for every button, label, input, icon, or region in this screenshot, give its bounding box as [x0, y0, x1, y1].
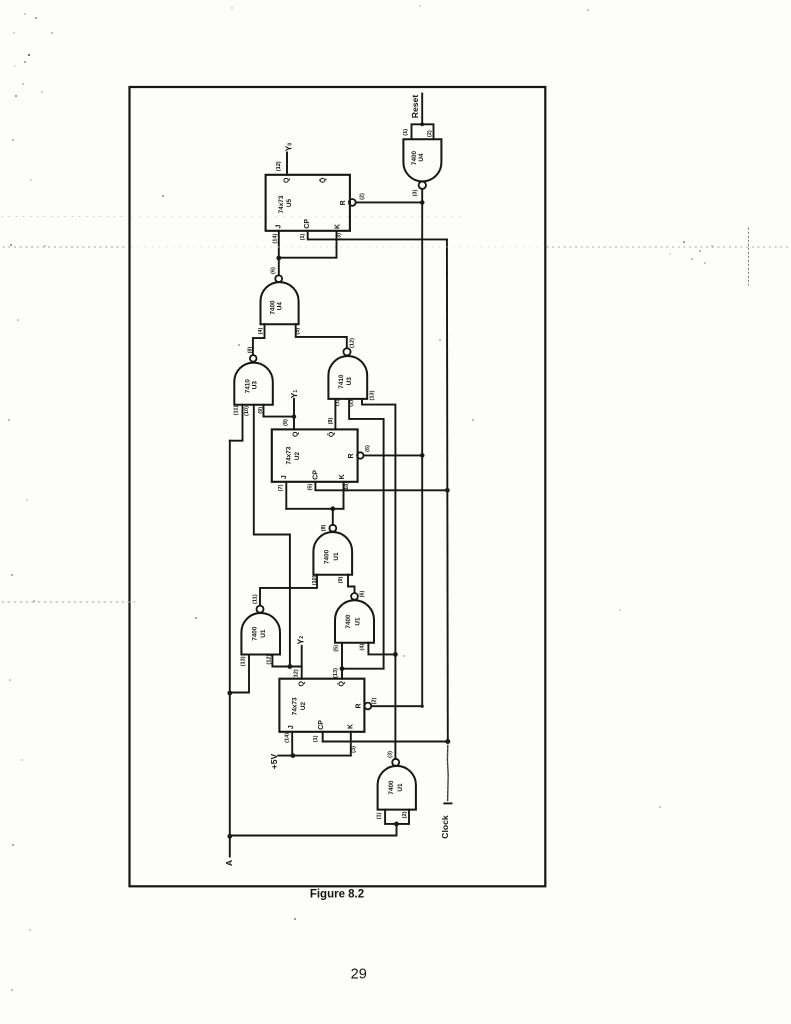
junction Y2 node / U3L input 10 rail — [288, 664, 293, 669]
svg-text:(8): (8) — [328, 417, 334, 424]
wire U2 CP to clock rail — [315, 482, 447, 491]
junction +5V / U2b J — [291, 753, 296, 758]
svg-text:U1: U1 — [397, 783, 404, 792]
svg-text:Q̄: Q̄ — [337, 681, 346, 687]
svg-text:(4): (4) — [258, 327, 264, 334]
svg-text:(6): (6) — [365, 445, 371, 452]
wire U1b input 10 from U1d output — [260, 575, 317, 606]
wire U1a inputs tie bracket — [385, 810, 409, 824]
svg-text:K: K — [339, 474, 346, 479]
flip-flop U2 (74x73) — [272, 429, 364, 481]
wire Y2 vertical / FF3 Q — [301, 646, 303, 679]
nand gate U3L (7410 U3, points up) — [234, 355, 272, 405]
svg-text:Figure 8.2: Figure 8.2 — [310, 889, 364, 901]
junction Reset rail / U5 R — [420, 200, 425, 205]
wire U5 K tie — [279, 231, 337, 258]
wire U3L input 9 to Y1 node — [264, 405, 295, 417]
svg-text:74x73: 74x73 — [286, 446, 293, 464]
svg-text:CP: CP — [304, 219, 311, 229]
junction Reset rail / U2 R — [420, 453, 425, 458]
junction clock rail / U2 CP — [445, 488, 450, 493]
svg-text:K: K — [334, 224, 341, 229]
svg-text:Q: Q — [299, 681, 306, 687]
svg-text:(7): (7) — [278, 484, 284, 491]
wire U1c input 5 / FF3 Qbar — [341, 643, 343, 679]
svg-text:(8): (8) — [247, 346, 253, 353]
junction A rail / U1d input 13 — [227, 691, 232, 696]
svg-text:(12): (12) — [294, 669, 300, 679]
svg-text:(5): (5) — [334, 645, 340, 652]
wire U2 J tie — [285, 482, 287, 509]
svg-text:(5): (5) — [308, 484, 314, 491]
flip-flop U2b (74x73, bottom section) — [279, 679, 371, 732]
svg-text:(13): (13) — [369, 390, 375, 400]
junction clock rail / clock horizontal — [445, 739, 450, 744]
nand gate U1c (7400 U1, points up) — [335, 593, 374, 643]
svg-text:(2): (2) — [372, 697, 378, 704]
svg-text:(11): (11) — [253, 594, 259, 604]
wire Reset lead — [421, 94, 423, 125]
wire U3R input 2 rail — [349, 399, 384, 669]
svg-text:U2: U2 — [300, 701, 307, 710]
svg-text:(1): (1) — [313, 735, 319, 742]
svg-text:J: J — [281, 475, 288, 479]
svg-text:(2): (2) — [427, 130, 433, 137]
svg-text:74x73: 74x73 — [292, 697, 299, 715]
junction U2 J/K tie / U1b output — [330, 506, 335, 511]
svg-text:7400: 7400 — [411, 150, 418, 165]
junction FF3 Qbar node — [340, 666, 345, 671]
page frame — [130, 87, 546, 886]
svg-text:J: J — [288, 725, 295, 729]
nand gate U1b (7400 U1, points up) — [313, 525, 352, 575]
svg-text:CP: CP — [312, 470, 319, 480]
junction Y1 node — [292, 414, 296, 418]
wire U1d input 13 to A rail — [230, 655, 249, 693]
svg-text:(14): (14) — [284, 733, 290, 743]
wire clock rail — [446, 239, 449, 741]
svg-text:U4: U4 — [418, 153, 425, 162]
svg-text:29: 29 — [351, 967, 367, 983]
wire U2 R to Reset rail — [364, 454, 423, 456]
svg-text:7400: 7400 — [252, 626, 259, 641]
junction A rail / A feed — [227, 834, 232, 839]
svg-text:(2): (2) — [360, 193, 366, 200]
wire U2 J/K tie bar — [286, 508, 343, 510]
svg-text:7410: 7410 — [245, 379, 252, 394]
wire U3R input 13 / U1a output rail — [362, 399, 395, 759]
svg-text:U2: U2 — [294, 451, 301, 460]
junction U1a inputs / A feed — [394, 822, 399, 827]
svg-text:(1): (1) — [300, 233, 306, 240]
svg-text:(13): (13) — [333, 668, 339, 678]
wire U3L input 10 to Y2 node — [254, 405, 290, 667]
svg-text:(3): (3) — [351, 746, 357, 753]
svg-text:(10): (10) — [244, 406, 250, 416]
wire U5 Q to Y0 — [286, 153, 288, 175]
svg-text:U5: U5 — [286, 198, 293, 207]
svg-text:(14): (14) — [272, 233, 278, 243]
svg-text:R: R — [340, 200, 347, 205]
nand gate U1a (7400 U1, clock gate, points up) — [378, 759, 416, 810]
flip-flop U5 (74x73) — [266, 175, 356, 231]
wire U1d input 12 to Y2 node — [272, 655, 301, 667]
svg-text:(1): (1) — [376, 812, 382, 819]
svg-text:(11): (11) — [233, 406, 239, 416]
wire U2b K — [350, 732, 352, 756]
svg-text:(9): (9) — [338, 576, 344, 583]
wire A feed to U1a — [230, 824, 397, 836]
svg-text:Reset: Reset — [410, 95, 420, 119]
svg-text:7400: 7400 — [270, 300, 277, 315]
wire U2 K tie — [343, 482, 345, 509]
wire U4a output — [421, 189, 423, 203]
wire U2b CP stub — [322, 732, 324, 742]
wire FF3 Qbar to U3R input 2 rail — [342, 668, 384, 670]
svg-text:K: K — [347, 724, 354, 729]
svg-text:74x73: 74x73 — [278, 195, 285, 213]
nand gate U3R (7410 U3, points up) — [328, 348, 367, 399]
svg-text:(13): (13) — [241, 656, 247, 666]
svg-text:(2): (2) — [402, 811, 408, 818]
svg-text:J: J — [276, 224, 283, 228]
wire U5 J to U4b output — [278, 231, 280, 275]
svg-text:Q: Q — [283, 177, 290, 183]
svg-text:7400: 7400 — [345, 614, 352, 629]
svg-text:Q̄: Q̄ — [318, 177, 327, 183]
wire U1b output — [332, 509, 334, 525]
wire U1b input 9 from U1c output — [348, 575, 355, 593]
svg-text:(6): (6) — [271, 267, 277, 274]
svg-text:7400: 7400 — [324, 549, 331, 564]
svg-text:CP: CP — [318, 720, 325, 730]
svg-text:(3): (3) — [413, 189, 419, 196]
svg-text:(3): (3) — [387, 751, 393, 758]
junction Reset rail end / U2b R — [421, 705, 424, 708]
svg-text:R: R — [355, 703, 362, 708]
wire U2b J to +5V — [291, 732, 293, 756]
svg-text:(1): (1) — [403, 129, 409, 136]
nand gate U4b (7400 U4, drives U5 J/K, points up) — [261, 275, 299, 324]
svg-text:7400: 7400 — [388, 780, 395, 795]
wire Clock end tick — [444, 802, 451, 804]
junction Reset/connector — [420, 122, 424, 126]
wire clock horizontal — [323, 741, 448, 743]
svg-text:Q̄: Q̄ — [326, 431, 335, 437]
junction U1a output rail / U1c input 4 — [393, 652, 398, 657]
svg-text:Clock: Clock — [440, 815, 450, 839]
wire U3R input 1 / U2 Qbar — [334, 399, 336, 430]
wire U4b input 4 from U3L output — [253, 324, 265, 355]
wire Clock lead (faint) — [446, 746, 449, 801]
svg-text:Q: Q — [292, 431, 299, 437]
svg-text:U1: U1 — [333, 552, 340, 561]
junction U5 J/K tie — [276, 256, 281, 261]
svg-text:7410: 7410 — [338, 374, 345, 389]
wire U4b input 5 from U3R output — [296, 324, 347, 348]
svg-text:A: A — [224, 860, 234, 866]
wire Reset rail — [421, 203, 423, 707]
svg-text:U4: U4 — [277, 302, 284, 311]
svg-text:U1: U1 — [355, 617, 362, 626]
svg-text:U3: U3 — [346, 377, 353, 386]
svg-text:(8): (8) — [321, 524, 327, 531]
wire U1c input 4 to U1a output rail — [368, 643, 395, 655]
wire U3L input 11 to A rail — [230, 405, 243, 441]
wire Y1 vertical / U2 Q — [293, 399, 295, 430]
wire +5V tie J/K — [278, 755, 351, 757]
svg-text:(12): (12) — [350, 338, 356, 348]
svg-text:(9): (9) — [283, 419, 289, 426]
svg-text:(12): (12) — [276, 161, 282, 171]
svg-text:(4): (4) — [359, 644, 365, 651]
scan artifact dotted lines — [2, 217, 788, 603]
wire U5 R to Reset rail — [356, 201, 422, 203]
wire A rail — [229, 441, 231, 857]
svg-text:U3: U3 — [252, 381, 259, 390]
svg-text:(6): (6) — [359, 590, 365, 597]
wire U5 CP to clock rail — [308, 231, 447, 240]
nand gate U4a (7400 U4, Reset gate, points down) — [403, 139, 441, 189]
svg-text:R: R — [348, 453, 355, 458]
wire U4a input connector (pins 1,2 tied) — [412, 124, 434, 139]
wire U2b R to Reset rail — [371, 705, 422, 707]
nand gate U1d (7400 U1, points up) — [241, 606, 280, 655]
svg-text:U1: U1 — [260, 629, 267, 638]
